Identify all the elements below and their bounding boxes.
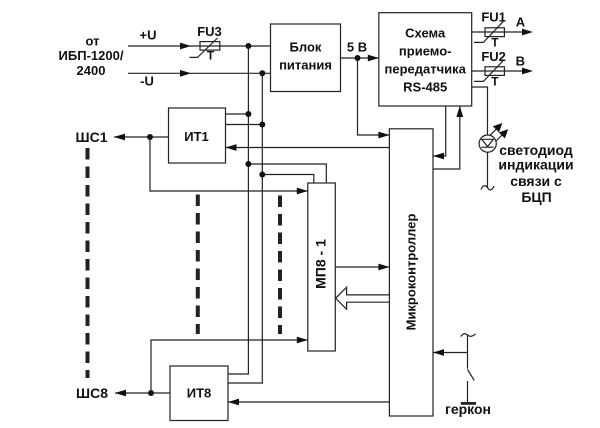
wire +U: [128, 45, 271, 47]
svg-text:+U: +U: [140, 28, 157, 43]
wire 5V to MCU: [358, 58, 390, 135]
svg-text:5 В: 5 В: [347, 40, 367, 55]
fuse FU3: [200, 42, 220, 51]
wire SHS8 junction to MP8: [151, 340, 308, 393]
svg-text:связи с: связи с: [510, 173, 562, 189]
wire MCU to RS485: [433, 106, 460, 169]
fuse FU2: [485, 67, 504, 76]
svg-text:Блок: Блок: [290, 40, 322, 55]
svg-text:T: T: [491, 35, 499, 49]
wire MCU to IT1: [226, 147, 390, 149]
svg-text:от: от: [86, 34, 100, 49]
svg-text:передатчика: передатчика: [385, 62, 467, 77]
wire -U rail down to IT8: [228, 73, 262, 383]
dashed loop line middle left: [196, 195, 200, 335]
wire B: [472, 70, 524, 72]
svg-text:2400: 2400: [77, 63, 106, 78]
node SHS8 junction: [148, 390, 154, 396]
wire -U: [128, 72, 271, 74]
wire +U rail down to IT8: [228, 46, 248, 374]
svg-text:геркон: геркон: [445, 401, 491, 417]
block MP8-1: [308, 183, 336, 351]
wire MP8 feed upper: [248, 164, 326, 183]
break squiggle below LED: [481, 186, 494, 190]
svg-text:ИБП-1200/: ИБП-1200/: [59, 48, 124, 63]
LED light arrow 2: [496, 134, 504, 142]
fuse FU1: [485, 28, 504, 37]
dashed loop line middle right: [278, 196, 282, 335]
wire MP8 to MCU: [335, 266, 389, 268]
wire MP8 feed lower: [262, 175, 314, 184]
svg-text:ИТ1: ИТ1: [184, 129, 209, 144]
svg-text:FU2: FU2: [481, 49, 506, 64]
svg-text:индикации: индикации: [498, 157, 573, 173]
svg-text:T: T: [491, 74, 499, 88]
bus arrow MCU to MP8 (hollow): [336, 287, 390, 309]
wire MCU to IT8: [228, 401, 389, 403]
wire 5V: [341, 57, 379, 59]
svg-text:питания: питания: [279, 58, 332, 73]
node +U junction: [245, 43, 251, 49]
svg-text:Микроконтроллер: Микроконтроллер: [404, 214, 419, 331]
LED light arrow 1: [490, 128, 498, 136]
wire RS485 to MCU: [433, 106, 446, 156]
wire SHS8: [115, 392, 170, 394]
LED indicator: [479, 135, 496, 152]
wire SHS1: [114, 136, 169, 138]
wire rail to IT1 pin1: [226, 113, 249, 115]
wire to LED: [472, 87, 488, 135]
svg-text:-U: -U: [140, 74, 154, 89]
svg-text:FU1: FU1: [481, 10, 506, 25]
svg-text:RS-485: RS-485: [403, 80, 447, 95]
reed switch (gerkon): [461, 334, 476, 337]
reed switch wire to MCU: [433, 352, 468, 354]
block power supply: [271, 24, 341, 92]
svg-text:Схема: Схема: [405, 26, 446, 41]
wire below LED: [487, 152, 489, 187]
block RS-485 transceiver: [379, 13, 472, 106]
node 5V junction: [355, 55, 361, 61]
wire A: [472, 31, 524, 33]
node SHS1 junction: [147, 134, 153, 140]
block IT8: [170, 366, 228, 421]
svg-text:B: B: [516, 53, 525, 68]
svg-text:A: A: [516, 14, 526, 29]
svg-text:ИТ8: ИТ8: [187, 386, 212, 401]
svg-text:ШС8: ШС8: [76, 385, 108, 401]
svg-text:ШС1: ШС1: [76, 129, 108, 145]
node -U junction: [259, 70, 265, 76]
block MCU (microcontroller): [389, 129, 433, 416]
wire SHS1 junction to MP8: [150, 137, 308, 191]
block IT1: [169, 108, 226, 163]
svg-text:приемо-: приемо-: [399, 44, 452, 59]
dashed loop line ShS1..ShS8: [86, 148, 90, 378]
svg-text:T: T: [207, 49, 215, 63]
svg-text:FU3: FU3: [197, 24, 222, 39]
svg-text:МП8 - 1: МП8 - 1: [313, 239, 329, 289]
wire rail to IT1 pin2: [226, 124, 263, 126]
svg-text:БЦП: БЦП: [521, 189, 551, 205]
